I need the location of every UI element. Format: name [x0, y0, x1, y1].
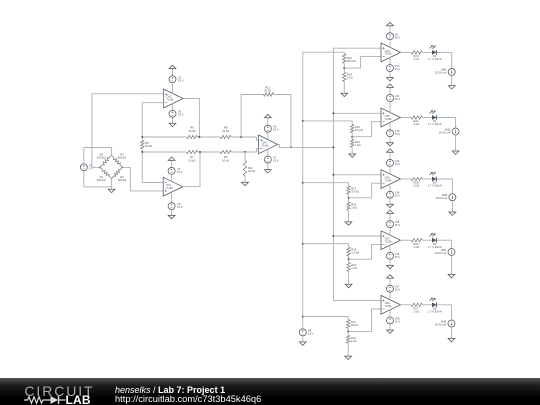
voltage source V7: [264, 156, 279, 164]
svg-text:10 kΩ: 10 kΩ: [248, 169, 255, 173]
wire divider 6 to OA6 inverting input: [349, 183, 382, 198]
wire divider 7 top: [348, 244, 350, 247]
resistor R8: [220, 126, 231, 139]
ground OA5 negative supply: [387, 137, 394, 146]
node ref bus S3: [302, 182, 304, 184]
wire bottom rail right: [231, 149, 258, 152]
node R12 to output: [290, 146, 292, 148]
ground OA2 negative supply: [168, 210, 175, 219]
wire V2 to OA1: [172, 83, 174, 94]
ammeter AM4: [435, 248, 455, 256]
wire V17 to OA8: [389, 292, 391, 300]
wire LED to ammeter 4: [437, 240, 452, 248]
LED D1: [428, 45, 442, 61]
svg-text:20.00 mA: 20.00 mA: [435, 322, 447, 326]
node signal to OA4: [332, 146, 334, 148]
wire divider 5 bottom: [351, 147, 353, 154]
wire bridge left node to OA1 noninverting input: [92, 94, 164, 168]
ground ammeter 5: [448, 338, 455, 342]
svg-text:1 kΩ: 1 kΩ: [413, 184, 419, 188]
svg-text:1 kΩ: 1 kΩ: [351, 339, 357, 343]
resistor R17: [347, 186, 359, 194]
svg-text:TL081: TL081: [166, 187, 174, 190]
wire signal to OA7: [333, 235, 381, 237]
svg-text:1.7 V 20mA: 1.7 V 20mA: [428, 184, 442, 188]
ground divider 6: [345, 222, 352, 225]
svg-text:560 kΩ: 560 kΩ: [118, 178, 127, 182]
wire V9 to OA4: [389, 40, 391, 48]
node ref bus S2: [302, 120, 304, 122]
wire top rail right: [231, 137, 258, 140]
ground divider 7: [345, 284, 352, 287]
ground OA8 positive supply: [387, 275, 394, 286]
node R11 junction: [244, 151, 246, 153]
wire R24 to LED: [422, 117, 432, 119]
wire V1 top: [83, 148, 85, 164]
voltage source V15: [387, 220, 401, 228]
wire ammeter 4 to ground: [451, 256, 453, 275]
op-amp OA4: [381, 43, 401, 62]
voltage source V5: [168, 202, 183, 210]
wire divider 6 mid: [348, 194, 350, 202]
voltage source V2: [169, 75, 184, 83]
op-amp OA7: [381, 231, 401, 250]
svg-text:5.6 kΩ: 5.6 kΩ: [355, 128, 363, 132]
ground OA1 positive supply: [169, 65, 176, 76]
wire OA4 output: [401, 51, 412, 53]
resistor R14: [343, 72, 353, 82]
svg-text:15 V: 15 V: [395, 223, 401, 227]
wire OA3 to V7: [267, 149, 269, 156]
wire OA2 to V5: [171, 192, 173, 203]
wire OA1 output: [183, 99, 199, 138]
wire divider 5 mid: [351, 133, 353, 140]
svg-text:15 V: 15 V: [395, 320, 401, 324]
wire OA1 inverting input: [142, 103, 163, 141]
wire V11 to OA5: [389, 102, 391, 113]
wire divider 6 top: [348, 183, 350, 186]
svg-text:1 kΩ: 1 kΩ: [355, 143, 361, 147]
resistor R19: [347, 247, 359, 256]
svg-text:TL081: TL081: [385, 179, 393, 182]
wire divider 8 bottom: [347, 343, 349, 356]
svg-text:20.00 mA: 20.00 mA: [435, 71, 447, 75]
op-amp OA8: [381, 295, 401, 314]
node bus OA6: [332, 174, 334, 176]
svg-text:15 V: 15 V: [177, 205, 183, 209]
wire OA8 to V18: [389, 310, 391, 317]
ground OA3 positive supply: [264, 114, 271, 125]
op-amp OA5: [381, 108, 401, 127]
wire divider 7 bottom: [348, 271, 350, 284]
voltage source V1: [80, 163, 93, 171]
ground ammeter 3: [449, 212, 456, 216]
wire V4 to OA2: [171, 174, 173, 181]
resistor R13: [343, 54, 356, 64]
voltage source V12: [387, 129, 401, 137]
svg-text:560 Ω: 560 Ω: [351, 323, 358, 327]
svg-text:15 V: 15 V: [395, 194, 401, 198]
wire divider 5 top: [351, 121, 353, 125]
svg-text:R9: R9: [224, 155, 228, 159]
svg-text:560 kΩ: 560 kΩ: [97, 178, 106, 182]
ground divider 4: [341, 93, 348, 97]
svg-text:20.00 mA: 20.00 mA: [439, 130, 451, 134]
node divider 7: [348, 258, 350, 260]
wire V13 to OA6: [389, 166, 391, 174]
wire R27 to LED: [422, 304, 432, 306]
ground bridge: [108, 187, 115, 193]
node gain resistor top: [141, 136, 143, 138]
svg-text:15 V: 15 V: [395, 35, 401, 39]
svg-text:TL081: TL081: [385, 118, 393, 121]
voltage source V9: [387, 32, 401, 40]
wire R26 to LED: [422, 239, 432, 241]
node U2 output junction: [199, 151, 201, 153]
node divider 8: [347, 330, 349, 332]
svg-text:20 kΩ: 20 kΩ: [145, 144, 152, 148]
wire V15 to OA7: [389, 228, 391, 236]
node divider 6: [348, 197, 350, 199]
wire OA3 output: [278, 144, 334, 147]
svg-text:3.3 kΩ: 3.3 kΩ: [351, 189, 359, 193]
node gain resistor bottom: [141, 151, 143, 153]
wire ref to divider 4: [303, 243, 349, 245]
svg-text:1 kΩ: 1 kΩ: [351, 206, 357, 210]
op-amp OA3: [259, 135, 278, 154]
LED D3: [428, 172, 442, 188]
svg-text:20 kΩ: 20 kΩ: [188, 159, 195, 163]
svg-text:15 V: 15 V: [395, 162, 401, 166]
svg-text:20.00 mA: 20.00 mA: [435, 251, 447, 255]
svg-text:200 kΩ: 200 kΩ: [347, 59, 356, 63]
ground ammeter 2: [452, 151, 459, 155]
svg-text:5 V: 5 V: [89, 166, 93, 170]
svg-text:1.2 kΩ: 1.2 kΩ: [351, 251, 359, 255]
ground ammeter 1: [448, 86, 455, 90]
node divider 4: [343, 67, 345, 69]
resistor R5 gain: [141, 140, 153, 148]
wire divider 6 bottom: [348, 210, 350, 222]
svg-text:10 kΩ: 10 kΩ: [222, 129, 229, 133]
LED D4: [428, 233, 442, 249]
voltage source V11: [387, 94, 401, 102]
ground OA2 positive supply: [168, 157, 175, 167]
voltage source V13: [387, 159, 401, 167]
wire divider 8 to OA8 inverting input: [348, 309, 381, 331]
wire bridge bottom rail: [84, 179, 112, 187]
wire divider 4 to OA4 inverting input: [344, 57, 381, 69]
resistor R22: [347, 335, 357, 343]
resistor R24 output: [411, 116, 422, 126]
node ref bus S5: [302, 316, 304, 318]
LED D5: [428, 298, 442, 314]
ground OA4 positive supply: [387, 22, 394, 32]
svg-text:15 V: 15 V: [178, 113, 184, 117]
node U1 output junction: [198, 136, 200, 138]
svg-text:1 kΩ: 1 kΩ: [413, 122, 419, 126]
wire OA4 to V10: [389, 57, 391, 64]
ammeter AM3: [436, 193, 456, 201]
ground OA1 negative supply: [169, 117, 176, 126]
wire OA5 to V12: [389, 123, 391, 130]
svg-text:15 V: 15 V: [395, 67, 401, 71]
wire ammeter 1 to ground: [451, 75, 453, 85]
svg-text:20 kΩ: 20 kΩ: [188, 129, 195, 133]
wire OA6 output: [401, 178, 412, 180]
svg-text:1 kΩ: 1 kΩ: [351, 266, 357, 270]
wire LED to ammeter 1: [437, 52, 452, 68]
node bridge right: [122, 167, 124, 169]
svg-text:560 kΩ: 560 kΩ: [118, 156, 127, 160]
svg-text:TL081: TL081: [385, 305, 393, 308]
wire R12 left: [241, 95, 263, 138]
wire OA5 output: [401, 117, 412, 119]
LED D2: [428, 111, 442, 127]
resistor R4 bridge bottom-right: [112, 167, 127, 182]
op-amp OA1: [164, 89, 184, 108]
node bridge left: [99, 167, 101, 169]
resistor R6: [187, 126, 198, 139]
svg-text:15 V: 15 V: [395, 132, 401, 136]
wire ammeter 3 to ground: [451, 201, 453, 212]
svg-text:15 V: 15 V: [273, 159, 279, 163]
wire R25 to LED: [422, 178, 432, 180]
wire bottom rail left: [142, 151, 186, 153]
wire LED to ammeter 3: [437, 179, 452, 194]
svg-text:10 kΩ: 10 kΩ: [222, 159, 229, 163]
svg-text:1 kΩ: 1 kΩ: [413, 245, 419, 249]
wire OA8 output: [401, 304, 412, 306]
wire divider 7 to OA7 inverting input: [349, 244, 381, 259]
wire R23 to LED: [422, 51, 432, 53]
wire LED to ammeter 2: [437, 118, 456, 129]
svg-text:15 V: 15 V: [273, 128, 279, 132]
voltage source V6: [264, 125, 279, 133]
wire V6 to OA3: [267, 132, 269, 140]
ground OA4 negative supply: [387, 72, 394, 81]
wire ref to divider 5: [303, 316, 348, 318]
op-amp OA2: [163, 177, 183, 196]
svg-text:20.00 mA: 20.00 mA: [436, 196, 448, 200]
resistor R25 output: [411, 177, 422, 187]
wire divider 8 mid: [347, 328, 349, 335]
wire V1 bottom: [83, 171, 85, 187]
wire top rail left: [142, 136, 186, 138]
ammeter AM2: [439, 127, 459, 135]
voltage source V3: [169, 110, 184, 118]
svg-text:1 kΩ: 1 kΩ: [347, 76, 353, 80]
resistor R26 output: [411, 239, 422, 249]
resistor R15: [351, 125, 363, 133]
resistor R23 output: [411, 51, 422, 61]
voltage source V17: [387, 285, 401, 293]
resistor R7: [187, 150, 198, 162]
wire ref to divider 2: [303, 120, 352, 122]
wire OA7 output: [401, 239, 412, 241]
wire divider 4 bottom: [343, 82, 345, 94]
ammeter AM5: [435, 319, 455, 327]
resistor R3 bridge top-right: [112, 153, 127, 168]
resistor R18: [347, 202, 357, 210]
ground OA6 negative supply: [387, 198, 394, 207]
wire bottom rail mid: [198, 151, 221, 153]
svg-text:R8: R8: [224, 126, 228, 130]
ground divider 5: [349, 154, 356, 158]
wire signal bus: [333, 48, 381, 300]
ground OA7 negative supply: [387, 259, 394, 268]
wire OA2 inverting input: [142, 149, 163, 183]
ammeter AM1: [435, 68, 455, 76]
wire OA6 to V14: [389, 184, 391, 191]
resistor R20: [347, 262, 357, 271]
voltage source V14: [387, 191, 401, 199]
ground ammeter 4: [448, 274, 455, 278]
wire divider 4 mid: [343, 63, 345, 72]
wire bridge top rail: [84, 148, 112, 156]
svg-text:1.7 V 20mA: 1.7 V 20mA: [428, 122, 442, 126]
svg-text:R6: R6: [190, 126, 194, 130]
ground V8: [299, 336, 306, 345]
wire LED to ammeter 5: [437, 305, 452, 320]
node bus OA5: [332, 112, 334, 114]
svg-text:TL081: TL081: [262, 145, 270, 148]
node bus OA7: [332, 235, 334, 237]
svg-text:20 kΩ: 20 kΩ: [264, 89, 271, 93]
svg-text:15 V: 15 V: [395, 97, 401, 101]
wire ammeter 5 to ground: [451, 327, 453, 338]
wire divider 7 mid: [348, 256, 350, 262]
footer bar: [0, 378, 540, 405]
voltage source V4: [168, 167, 183, 175]
node R12 junction: [240, 136, 242, 138]
wire R12 right: [274, 95, 291, 148]
ground OA6 positive supply: [387, 149, 394, 159]
wire reference bus: [303, 52, 345, 329]
svg-text:1 kΩ: 1 kΩ: [413, 309, 419, 313]
voltage source V16: [387, 252, 401, 260]
svg-text:1.7 V 20mA: 1.7 V 20mA: [428, 309, 442, 313]
node divider 5: [351, 136, 353, 138]
resistor R2 bridge top-left: [97, 153, 112, 168]
wire divider 5 to OA5 inverting input: [352, 122, 381, 137]
resistor R21: [347, 320, 359, 329]
svg-text:15 V: 15 V: [178, 78, 184, 82]
resistor R9: [220, 150, 231, 162]
svg-text:TL081: TL081: [385, 53, 393, 56]
wire OA1 to V3: [172, 104, 174, 111]
ground OA8 negative supply: [387, 324, 394, 333]
voltage source V8: [299, 328, 313, 336]
wire top rail mid: [198, 136, 221, 138]
svg-text:10 V: 10 V: [308, 331, 314, 335]
voltage source V18: [387, 317, 401, 325]
wire signal to OA6: [333, 174, 381, 176]
svg-text:TL081: TL081: [385, 241, 393, 244]
resistor R1 bridge bottom-left: [97, 167, 112, 182]
svg-text:TL081: TL081: [167, 99, 175, 102]
wire bridge right node to OA2 noninverting input: [122, 167, 163, 191]
svg-text:R7: R7: [190, 155, 194, 159]
svg-text:1 kΩ: 1 kΩ: [413, 57, 419, 61]
wire ammeter 2 to ground: [455, 135, 457, 151]
wire OA2 output: [183, 152, 200, 187]
wire divider 8 top: [347, 317, 349, 320]
ground R11: [242, 176, 249, 186]
ground OA3 negative supply: [264, 163, 271, 173]
wire ref to divider 3: [303, 182, 349, 184]
resistor R11: [243, 152, 255, 176]
ground OA7 positive supply: [387, 210, 394, 221]
svg-text:15 V: 15 V: [395, 288, 401, 292]
svg-text:1.7 V 20mA: 1.7 V 20mA: [428, 57, 442, 61]
node ref bus S4: [302, 243, 304, 245]
voltage source V10: [387, 64, 401, 72]
wire divider 4 top: [343, 52, 345, 54]
resistor R12 feedback: [264, 86, 274, 97]
wire signal to OA5: [333, 112, 381, 114]
ground OA5 positive supply: [387, 84, 394, 95]
ground divider 8: [345, 356, 352, 360]
svg-text:15 V: 15 V: [177, 170, 183, 174]
wire OA7 to V16: [389, 245, 391, 252]
resistor R27 output: [411, 303, 422, 313]
svg-text:15 V: 15 V: [395, 255, 401, 259]
resistor R16: [351, 139, 361, 147]
op-amp OA6: [381, 170, 401, 189]
svg-text:620 kΩ: 620 kΩ: [97, 156, 106, 160]
CircuitLab logo: [24, 383, 94, 399]
